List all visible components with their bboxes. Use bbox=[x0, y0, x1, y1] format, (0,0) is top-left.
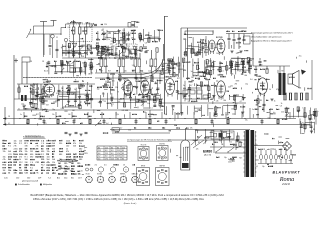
left mid mesh bbox=[29, 85, 44, 107]
svg-text:220: 220 bbox=[104, 24, 107, 26]
svg-text:1,5k: 1,5k bbox=[285, 115, 288, 117]
svg-text:220: 220 bbox=[112, 80, 115, 82]
output transformer bbox=[279, 73, 286, 95]
svg-text:1k: 1k bbox=[269, 89, 271, 91]
svg-text:1,5k: 1,5k bbox=[216, 101, 219, 103]
dropper resistors between rails bbox=[27, 119, 279, 125]
coupling caps to IF tubes bbox=[100, 73, 160, 86]
svg-text:5n: 5n bbox=[183, 85, 185, 87]
svg-text:R9: R9 bbox=[260, 100, 262, 102]
tone network mesh bbox=[167, 104, 245, 118]
under ECC85 mesh bbox=[206, 60, 228, 75]
svg-text:1,5k: 1,5k bbox=[110, 44, 113, 46]
svg-text:2M: 2M bbox=[25, 154, 28, 156]
right lower labels bbox=[256, 166, 273, 168]
svg-text:1k: 1k bbox=[66, 148, 68, 150]
svg-text:0,1: 0,1 bbox=[143, 81, 145, 83]
svg-text:500: 500 bbox=[207, 97, 210, 99]
tube ECH81 bbox=[43, 82, 54, 97]
svg-text:500: 500 bbox=[27, 178, 30, 180]
note text top right bbox=[251, 32, 294, 43]
svg-text:680: 680 bbox=[30, 157, 33, 159]
svg-text:5n: 5n bbox=[166, 65, 168, 67]
voltage table bbox=[84, 146, 127, 161]
svg-text:EBF 89: EBF 89 bbox=[160, 166, 165, 168]
svg-text:10k: 10k bbox=[78, 174, 81, 176]
svg-text:3n9: 3n9 bbox=[100, 71, 103, 73]
socket diagram EBF89 bottom bbox=[156, 166, 170, 186]
svg-text:680: 680 bbox=[41, 151, 44, 153]
svg-text:68k: 68k bbox=[188, 95, 191, 97]
svg-text:R17: R17 bbox=[90, 52, 93, 54]
svg-text:6,3: 6,3 bbox=[105, 156, 107, 158]
svg-text:68k: 68k bbox=[278, 90, 281, 92]
AF preamp mesh bbox=[176, 81, 216, 102]
volume control boxes bbox=[183, 90, 208, 99]
svg-text:2n2: 2n2 bbox=[191, 77, 194, 79]
svg-text:220: 220 bbox=[281, 111, 284, 113]
below AM mesh bbox=[60, 60, 94, 75]
svg-text:R17: R17 bbox=[108, 71, 111, 73]
supply rail buses bbox=[3, 117, 310, 129]
electrolytic capacitor bank bbox=[283, 93, 308, 100]
svg-text:5k6: 5k6 bbox=[73, 146, 76, 148]
svg-text:ECC85: ECC85 bbox=[216, 37, 223, 39]
svg-text:2n2: 2n2 bbox=[34, 89, 37, 91]
svg-text:100: 100 bbox=[47, 157, 50, 159]
pickup jack and line entry bbox=[25, 120, 170, 138]
svg-text:Bü 20: Bü 20 bbox=[44, 71, 48, 73]
svg-text:C31: C31 bbox=[8, 154, 12, 156]
svg-text:2n2: 2n2 bbox=[118, 101, 121, 103]
speckle band D bbox=[253, 56, 319, 115]
svg-text:10p: 10p bbox=[224, 157, 227, 159]
svg-text:47k: 47k bbox=[66, 151, 69, 153]
svg-text:4,7: 4,7 bbox=[154, 94, 156, 96]
svg-text:215: 215 bbox=[117, 150, 120, 152]
mixer lower mesh bbox=[95, 46, 113, 57]
svg-text:100: 100 bbox=[66, 146, 69, 148]
svg-text:C1: C1 bbox=[56, 37, 58, 39]
svg-text:EBF89: EBF89 bbox=[120, 174, 125, 176]
svg-text:47k: 47k bbox=[80, 22, 83, 24]
svg-text:68k: 68k bbox=[177, 91, 180, 93]
svg-text:R9: R9 bbox=[104, 101, 106, 103]
svg-text:85: 85 bbox=[117, 147, 119, 149]
svg-text:R9: R9 bbox=[313, 129, 315, 131]
svg-text:500: 500 bbox=[124, 71, 127, 73]
svg-text:10k: 10k bbox=[19, 140, 22, 142]
wire HT to speaker bbox=[253, 60, 312, 100]
wire bus y103 bbox=[160, 102, 246, 104]
svg-text:330: 330 bbox=[25, 162, 28, 164]
svg-text:R 1: R 1 bbox=[41, 154, 44, 156]
svg-text:Schaltkontakte: Schaltkontakte bbox=[18, 183, 30, 186]
AM oscillator section around ECH81 bbox=[18, 62, 42, 110]
curved shielded cable bbox=[118, 44, 164, 78]
svg-text:1k: 1k bbox=[208, 60, 210, 62]
labels scatter band2 bbox=[168, 78, 270, 81]
svg-text:1,5k: 1,5k bbox=[128, 130, 131, 132]
scatter labels right col bbox=[255, 89, 279, 110]
svg-text:680: 680 bbox=[79, 148, 82, 150]
svg-text:C41: C41 bbox=[122, 30, 125, 32]
svg-text:330: 330 bbox=[41, 159, 44, 161]
svg-text:27k: 27k bbox=[14, 146, 17, 148]
pin legend bbox=[126, 166, 127, 180]
svg-text:2M: 2M bbox=[30, 151, 33, 153]
power transformer Tr bbox=[243, 130, 256, 177]
svg-text:68k: 68k bbox=[299, 88, 302, 90]
svg-text:1,5k: 1,5k bbox=[230, 86, 233, 88]
svg-text:215: 215 bbox=[98, 150, 101, 152]
AM section mesh bbox=[62, 43, 91, 58]
svg-text:25u: 25u bbox=[302, 122, 305, 124]
svg-text:47k: 47k bbox=[3, 159, 6, 161]
svg-text:6,3: 6,3 bbox=[105, 150, 107, 152]
voltages header bbox=[127, 140, 172, 142]
svg-text:1k: 1k bbox=[281, 103, 283, 105]
svg-text:500: 500 bbox=[274, 149, 277, 151]
final speckle B bbox=[97, 80, 165, 116]
speckle band G bbox=[171, 129, 243, 162]
svg-text:12k: 12k bbox=[196, 149, 199, 151]
svg-text:EM80: EM80 bbox=[203, 149, 212, 153]
svg-text:ECH 81: ECH 81 bbox=[159, 144, 165, 146]
svg-text:25u: 25u bbox=[245, 120, 248, 122]
svg-text:R12: R12 bbox=[3, 165, 7, 167]
svg-text:1,5k: 1,5k bbox=[132, 65, 135, 67]
svg-text:Dr1: Dr1 bbox=[44, 123, 47, 125]
svg-text:5k6: 5k6 bbox=[52, 143, 55, 145]
svg-text:5n: 5n bbox=[191, 71, 193, 73]
svg-text:15k: 15k bbox=[79, 143, 82, 145]
svg-text:1M: 1M bbox=[25, 148, 28, 150]
svg-text:Umschaltkontakte: alle gemesse: Umschaltkontakte: alle gemessen bbox=[251, 36, 282, 39]
svg-text:1k: 1k bbox=[19, 159, 21, 161]
svg-text:15k: 15k bbox=[3, 157, 6, 159]
speckle band B bbox=[61, 21, 139, 58]
svg-text:4,7: 4,7 bbox=[120, 128, 122, 130]
svg-text:3n9: 3n9 bbox=[46, 104, 49, 106]
svg-text:BLAUPUNKT (Blaupunkt-Werke, Hi: BLAUPUNKT (Blaupunkt-Werke, Hildesheim —… bbox=[31, 194, 225, 197]
svg-text:215: 215 bbox=[105, 147, 108, 149]
svg-text:5n: 5n bbox=[190, 98, 192, 100]
svg-text:C8: C8 bbox=[114, 33, 116, 35]
scatter labels top mixer bbox=[96, 33, 136, 41]
svg-text:Dr1: Dr1 bbox=[266, 69, 269, 71]
svg-text:R 1: R 1 bbox=[8, 146, 11, 148]
svg-text:5k6: 5k6 bbox=[19, 170, 22, 172]
svg-text:Spannungen gemessen mit Röhren: Spannungen gemessen mit Röhrenvolt. 220 … bbox=[251, 32, 294, 35]
caption paragraph bbox=[31, 194, 225, 205]
cathode network mesh A bbox=[56, 92, 93, 110]
gap fill mesh 2 bbox=[47, 59, 93, 77]
svg-text:C8: C8 bbox=[175, 76, 177, 78]
svg-text:C8: C8 bbox=[280, 106, 282, 108]
svg-text:5k6: 5k6 bbox=[8, 151, 11, 153]
svg-text:220k: 220k bbox=[66, 140, 70, 142]
svg-text:330: 330 bbox=[59, 143, 62, 145]
svg-text:0,1: 0,1 bbox=[200, 45, 202, 47]
mid mesh y60-76 x110-160 bbox=[111, 80, 160, 97]
svg-text:C8: C8 bbox=[263, 149, 265, 151]
svg-text:85: 85 bbox=[98, 147, 100, 149]
socket diagram ECC85 top bbox=[138, 145, 149, 161]
svg-text:27k: 27k bbox=[36, 173, 39, 175]
svg-text:R9: R9 bbox=[231, 132, 233, 134]
svg-text:ECC 85: ECC 85 bbox=[141, 145, 147, 147]
svg-text:25u: 25u bbox=[52, 114, 55, 116]
svg-text:5k6: 5k6 bbox=[47, 159, 50, 161]
svg-text:10p: 10p bbox=[245, 83, 248, 85]
svg-text:10k: 10k bbox=[14, 140, 17, 142]
svg-text:1/564 e Ztd under (C/97 e C/81: 1/564 e Ztd under (C/97 e C/81), OM = 56… bbox=[33, 198, 205, 201]
svg-text:Angegebene Werte = Gleichspann: Angegebene Werte = Gleichspannung 220 V bbox=[251, 40, 292, 43]
EL84 cathode network bbox=[254, 58, 274, 119]
wire bus y84 bbox=[17, 83, 95, 85]
svg-text:100: 100 bbox=[25, 159, 28, 161]
svg-text:4,7: 4,7 bbox=[111, 104, 113, 106]
svg-text:Ant: Ant bbox=[57, 177, 60, 180]
svg-text:0,1: 0,1 bbox=[8, 123, 10, 125]
detector mesh bbox=[229, 56, 252, 74]
tube ECC85 a bbox=[209, 40, 215, 54]
svg-text:R9: R9 bbox=[188, 101, 190, 103]
svg-text:85: 85 bbox=[122, 159, 124, 161]
svg-text:R17: R17 bbox=[226, 115, 229, 117]
mains cluster wires bbox=[212, 140, 241, 153]
svg-text:215: 215 bbox=[122, 147, 125, 149]
speckle band I bbox=[96, 45, 153, 78]
svg-text:EF 89: EF 89 bbox=[141, 166, 145, 168]
svg-text:1k: 1k bbox=[232, 74, 234, 76]
svg-text:25u: 25u bbox=[299, 56, 302, 58]
svg-text:7,4: 7,4 bbox=[48, 178, 51, 180]
gap fill mesh 4 bbox=[191, 58, 212, 78]
svg-text:500: 500 bbox=[105, 37, 108, 39]
wire left margin vertical bbox=[5, 55, 14, 125]
tube sockets bottom view bbox=[85, 173, 138, 183]
svg-text:220: 220 bbox=[130, 59, 133, 61]
scatter labels buses bbox=[8, 116, 193, 130]
svg-text:85: 85 bbox=[117, 159, 119, 161]
coil pack L2-L4 AM input bbox=[70, 20, 94, 58]
svg-text:10k: 10k bbox=[14, 143, 17, 145]
svg-text:215: 215 bbox=[105, 153, 108, 155]
svg-text:10p: 10p bbox=[26, 123, 29, 125]
svg-text:6,3: 6,3 bbox=[111, 150, 113, 152]
AM-FM switch contacts top row bbox=[87, 21, 137, 28]
coil L1 bbox=[51, 35, 68, 59]
speckle band E bbox=[184, 30, 248, 55]
IF transformers Fi1 Fi2 and osc coils bbox=[100, 44, 158, 73]
svg-text:0,5M: 0,5M bbox=[104, 66, 108, 68]
svg-text:R 1: R 1 bbox=[19, 143, 22, 145]
svg-text:2n2: 2n2 bbox=[236, 53, 239, 55]
tube EBF89 bbox=[140, 78, 150, 97]
svg-text:68k: 68k bbox=[213, 116, 216, 118]
svg-text:C41: C41 bbox=[256, 160, 259, 162]
svg-text:100: 100 bbox=[62, 52, 65, 54]
svg-text:0,1: 0,1 bbox=[221, 71, 223, 73]
svg-text:1,05: 1,05 bbox=[4, 178, 8, 180]
EM80 area mesh bbox=[196, 129, 239, 146]
svg-text:0,6: 0,6 bbox=[122, 156, 124, 158]
svg-text:220: 220 bbox=[219, 63, 222, 65]
svg-text:0,5M: 0,5M bbox=[129, 33, 133, 35]
gap fill speckle bbox=[101, 29, 241, 103]
svg-text:680: 680 bbox=[79, 159, 82, 161]
svg-text:C8: C8 bbox=[145, 42, 147, 44]
svg-text:170: 170 bbox=[117, 153, 120, 155]
wire FM tuner internal bbox=[168, 28, 199, 80]
svg-text:5n: 5n bbox=[198, 68, 200, 70]
svg-text:0,6: 0,6 bbox=[98, 159, 100, 161]
svg-text:10p: 10p bbox=[73, 46, 76, 48]
svg-text:1,2: 1,2 bbox=[98, 156, 100, 158]
svg-text:0,5M: 0,5M bbox=[185, 147, 189, 149]
svg-text:4,7: 4,7 bbox=[111, 38, 113, 40]
gap fill mesh 3 bbox=[166, 57, 185, 78]
speckle band H bbox=[255, 137, 296, 165]
svg-text:0,1: 0,1 bbox=[102, 100, 104, 102]
svg-text:ECH81: ECH81 bbox=[97, 174, 102, 176]
svg-text:R9: R9 bbox=[111, 41, 113, 43]
cathode network mesh B bbox=[99, 92, 162, 110]
svg-text:Dr1: Dr1 bbox=[79, 51, 82, 54]
svg-text:C8: C8 bbox=[102, 92, 104, 94]
svg-text:0,1: 0,1 bbox=[91, 72, 93, 74]
svg-text:47k: 47k bbox=[156, 90, 159, 92]
svg-text:R17: R17 bbox=[177, 78, 180, 80]
svg-text:1,5k: 1,5k bbox=[148, 71, 151, 73]
svg-text:5n: 5n bbox=[114, 39, 116, 41]
svg-text:100: 100 bbox=[182, 96, 185, 98]
switch S1 waveband bbox=[60, 24, 69, 35]
svg-text:2n2: 2n2 bbox=[183, 39, 186, 41]
svg-text:C8: C8 bbox=[123, 165, 125, 167]
svg-text:2n2: 2n2 bbox=[230, 144, 233, 146]
svg-text:2410: 2410 bbox=[281, 182, 290, 186]
dial lamps and fuse row bbox=[253, 146, 293, 164]
svg-text:68k: 68k bbox=[194, 55, 197, 57]
svg-text:EC92: EC92 bbox=[86, 174, 90, 176]
svg-text:2n2: 2n2 bbox=[106, 123, 109, 125]
svg-text:gem.: gem. bbox=[84, 147, 88, 149]
svg-text:220k: 220k bbox=[14, 148, 18, 150]
Blaupunkt logo bbox=[273, 171, 301, 186]
svg-text:Dr1: Dr1 bbox=[71, 94, 74, 96]
ECH81 grid mesh bbox=[58, 84, 93, 99]
wire antenna drops bbox=[44, 34, 52, 55]
svg-text:2n2: 2n2 bbox=[68, 46, 71, 48]
svg-text:1,5k: 1,5k bbox=[23, 105, 26, 107]
svg-text:100: 100 bbox=[72, 110, 75, 112]
svg-text:12k: 12k bbox=[115, 87, 118, 89]
rectifier mesh bbox=[285, 107, 316, 121]
svg-text:1M: 1M bbox=[3, 170, 6, 172]
svg-text:100: 100 bbox=[157, 30, 160, 32]
svg-text:4,7: 4,7 bbox=[86, 97, 88, 99]
svg-text:85: 85 bbox=[111, 147, 113, 149]
svg-text:2n2: 2n2 bbox=[95, 165, 98, 167]
svg-text:C8: C8 bbox=[30, 61, 32, 63]
svg-text:3n9: 3n9 bbox=[100, 49, 103, 51]
svg-text:C41: C41 bbox=[80, 171, 83, 173]
svg-text:C8: C8 bbox=[8, 116, 10, 118]
svg-text:0,6: 0,6 bbox=[98, 153, 100, 155]
svg-text:C41: C41 bbox=[164, 114, 167, 116]
gap fill mesh 1 bbox=[96, 46, 137, 58]
svg-text:47k: 47k bbox=[73, 143, 76, 145]
svg-text:220: 220 bbox=[145, 79, 148, 81]
wire bus y110 bbox=[17, 109, 163, 111]
speckle band F bbox=[32, 111, 304, 134]
bus junction dots bbox=[20, 118, 276, 119]
svg-text:170: 170 bbox=[105, 159, 108, 161]
right edge column bbox=[304, 107, 317, 130]
more bus drops bbox=[150, 108, 300, 125]
right coil mesh bbox=[139, 29, 163, 43]
bridge rectifier diamond bbox=[283, 142, 292, 151]
svg-text:68k: 68k bbox=[245, 75, 248, 77]
svg-text:680: 680 bbox=[71, 168, 74, 170]
svg-text:680: 680 bbox=[59, 154, 62, 156]
dial lamps box bbox=[211, 131, 234, 139]
mains switch contacts bbox=[168, 140, 246, 159]
FM tuner mesh bbox=[183, 36, 208, 56]
anode decoupling caps C40-C44 bbox=[226, 31, 253, 66]
svg-text:EF89: EF89 bbox=[109, 174, 113, 176]
fm mesh2 bbox=[191, 40, 209, 58]
svg-text:47k: 47k bbox=[190, 128, 193, 130]
svg-text:15k: 15k bbox=[47, 151, 50, 153]
left osc speckle bbox=[21, 84, 48, 111]
svg-text:10p: 10p bbox=[67, 23, 70, 25]
svg-text:4,7: 4,7 bbox=[190, 85, 192, 87]
tube EABC80 bbox=[164, 76, 174, 97]
loudspeaker bbox=[288, 70, 306, 88]
svg-text:0,1: 0,1 bbox=[150, 108, 152, 110]
svg-text:10p: 10p bbox=[97, 88, 100, 90]
labels scatter band1 bbox=[30, 61, 161, 73]
speckle right bus band bbox=[252, 103, 282, 118]
right upper mesh bbox=[230, 57, 254, 74]
svg-text:8kv: 8kv bbox=[71, 178, 74, 180]
svg-text:C41: C41 bbox=[122, 110, 125, 112]
svg-text:1k: 1k bbox=[127, 90, 129, 92]
right edge mesh bbox=[300, 121, 315, 134]
scatter labels under IF bbox=[97, 87, 153, 95]
svg-text:1,5k: 1,5k bbox=[120, 33, 123, 35]
final speckle A bbox=[31, 83, 91, 112]
svg-text:6,3: 6,3 bbox=[111, 153, 113, 155]
final speckle C bbox=[56, 160, 84, 175]
svg-text:4,7: 4,7 bbox=[240, 101, 242, 103]
svg-text:15k: 15k bbox=[3, 151, 6, 153]
svg-text:330: 330 bbox=[25, 146, 28, 148]
svg-text:R9: R9 bbox=[198, 142, 200, 144]
svg-text:15k: 15k bbox=[52, 162, 55, 164]
svg-text:2M: 2M bbox=[71, 163, 74, 165]
svg-text:5n: 5n bbox=[127, 79, 129, 81]
drops to bus bbox=[20, 112, 242, 119]
mixer mesh bbox=[96, 28, 136, 43]
svg-text:68k: 68k bbox=[224, 100, 227, 102]
svg-text:3n9: 3n9 bbox=[252, 109, 255, 111]
svg-text:10p: 10p bbox=[262, 166, 265, 168]
